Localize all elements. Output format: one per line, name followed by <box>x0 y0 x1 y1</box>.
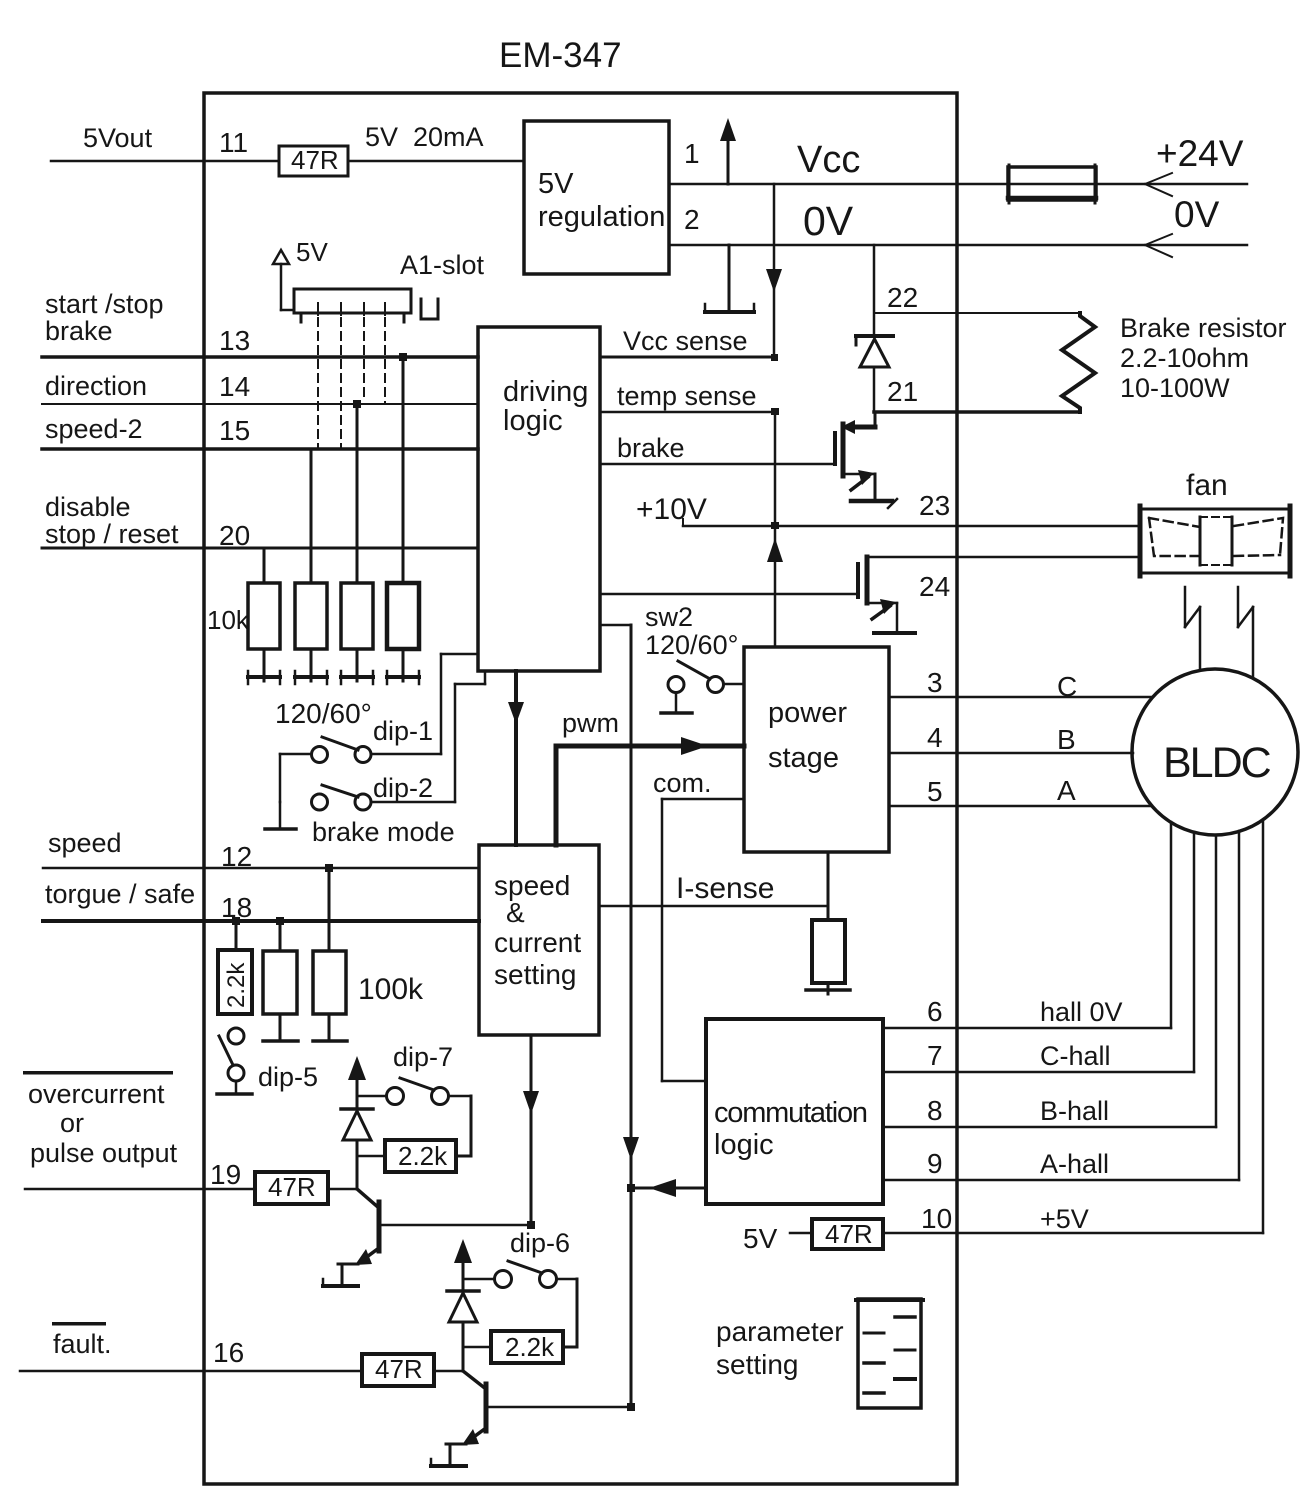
svg-text:8: 8 <box>927 1095 943 1126</box>
svg-text:pwm: pwm <box>562 708 619 738</box>
ground at pin 2 <box>705 245 754 312</box>
wire +10V riser to power stage with up arrow <box>767 412 783 647</box>
wire dip-2 to driving logic <box>371 671 485 802</box>
resistor 100k R5 <box>263 921 297 1014</box>
svg-text:sw2: sw2 <box>645 602 693 632</box>
svg-text:47R: 47R <box>291 145 339 175</box>
slot pin stubs <box>318 303 385 315</box>
svg-text:5V: 5V <box>743 1223 778 1254</box>
ground R6 <box>313 1014 347 1041</box>
fan blade left (dashed) <box>1149 518 1200 556</box>
svg-text:3: 3 <box>927 667 943 698</box>
svg-text:Brake resistor: Brake resistor <box>1120 313 1287 343</box>
connector A1-slot body <box>294 289 438 322</box>
label disable stop/reset <box>45 492 179 549</box>
wire commutation output left arrow <box>631 1179 706 1197</box>
label parameter setting <box>716 1316 844 1380</box>
ground R1 <box>248 649 280 684</box>
svg-text:dip-7: dip-7 <box>393 1042 453 1072</box>
svg-text:5: 5 <box>927 776 943 807</box>
svg-text:2: 2 <box>684 204 700 235</box>
svg-text:4: 4 <box>927 722 943 753</box>
svg-text:speed-2: speed-2 <box>45 414 143 444</box>
svg-text:1: 1 <box>684 138 700 169</box>
svg-text:disable: disable <box>45 492 131 522</box>
wire B-hall (pin 8) <box>883 835 1216 1127</box>
svg-text:14: 14 <box>219 371 250 402</box>
svg-text:A1-slot: A1-slot <box>400 250 485 280</box>
svg-text:dip-6: dip-6 <box>510 1228 570 1258</box>
wire brake (gate of brake MOSFET) <box>600 463 835 466</box>
DIP switch parameter setting <box>856 1299 923 1408</box>
resistor 10k R2 <box>295 449 327 649</box>
svg-text:logic: logic <box>503 405 563 437</box>
power stage block U3 <box>744 647 889 852</box>
diode D2 <box>341 1109 373 1189</box>
wire I-sense <box>599 905 828 908</box>
switch sw2 <box>668 661 724 693</box>
node R3 on line 14 <box>353 400 361 408</box>
transistor Q2 (fault NPN) <box>446 1371 631 1445</box>
svg-text:logic: logic <box>714 1129 774 1161</box>
wire phase A (pin 5) <box>889 805 1152 808</box>
commutation logic block U5 <box>706 1019 883 1204</box>
node R5 on line 18 <box>276 917 284 925</box>
ground dip-5 <box>217 1081 252 1094</box>
svg-text:setting: setting <box>494 959 577 990</box>
svg-text:pulse output: pulse output <box>30 1138 178 1168</box>
label fault. with overline <box>52 1322 112 1359</box>
node R4 on line 13 <box>399 353 407 361</box>
svg-text:overcurrent: overcurrent <box>28 1079 165 1109</box>
resistor 2.2k (dip-6) <box>491 1331 563 1363</box>
wire pin13 <box>42 355 478 359</box>
svg-text:A-hall: A-hall <box>1040 1149 1109 1179</box>
node 2.2k on line 18 <box>232 917 240 925</box>
ground I-sense <box>806 983 850 994</box>
label Brake resistor 2.2-10ohm 10-100W <box>1120 313 1287 403</box>
svg-text:or: or <box>60 1108 84 1138</box>
svg-text:47R: 47R <box>268 1172 316 1202</box>
wire 47R to 5V regulation <box>348 160 524 163</box>
ground R3 <box>341 649 373 684</box>
arrow up above diode D2 <box>348 1056 366 1109</box>
wire driving logic to com node riser <box>600 625 639 1407</box>
wire dip-7 left to diode node <box>357 1095 386 1098</box>
svg-text:2.2-10ohm: 2.2-10ohm <box>1120 343 1249 373</box>
wire com from power stage to commutation logic <box>662 799 744 1081</box>
svg-text:B-hall: B-hall <box>1040 1096 1109 1126</box>
resistor I-sense <box>812 920 845 983</box>
fan wire 1 with break <box>1185 587 1200 670</box>
ground at Q1 emitter <box>323 1264 358 1286</box>
svg-text:6: 6 <box>927 996 943 1027</box>
wire 47R to Q2 base <box>434 1370 463 1373</box>
switch dip-7 <box>387 1078 449 1105</box>
svg-text:regulation: regulation <box>538 201 665 233</box>
transistor Q1 brake MOSFET <box>835 412 875 500</box>
svg-text:20: 20 <box>219 520 250 551</box>
ground at Q2 source <box>874 631 915 635</box>
wire 0V rail <box>669 244 1247 247</box>
wire speed box to Q1 collector (down arrow) <box>523 1035 539 1225</box>
wire driving logic to speed box (thick, down arrow) <box>508 671 524 845</box>
svg-text:B: B <box>1057 724 1076 755</box>
wire pin11 left <box>51 160 279 163</box>
wire diode node to 2.2k <box>357 1155 385 1158</box>
svg-text:dip-1: dip-1 <box>373 716 433 746</box>
label overcurrent or pulse output with overline <box>23 1071 178 1168</box>
svg-text:driving: driving <box>503 376 588 408</box>
wire pin15 <box>42 447 478 451</box>
svg-text:Vcc: Vcc <box>797 139 860 181</box>
wire pin 21 to brake resistor <box>874 410 1080 414</box>
svg-text:10k: 10k <box>207 605 250 635</box>
fuse F1 <box>1008 165 1096 203</box>
wire diode node to 2.2k <box>463 1346 491 1349</box>
svg-text:120/60°: 120/60° <box>275 698 372 729</box>
svg-text:setting: setting <box>716 1349 799 1380</box>
svg-text:stop / reset: stop / reset <box>45 519 179 549</box>
wire pin19 <box>25 1188 255 1191</box>
resistor 47R (hall supply) <box>812 1219 883 1249</box>
wire sw2 to power stage <box>724 683 744 686</box>
resistor 2.2k vertical (pin 18) <box>218 921 252 1014</box>
resistor 47R (pin 19) <box>255 1172 328 1204</box>
wire dip-1 to driving logic <box>371 654 478 754</box>
svg-text:24: 24 <box>919 571 950 602</box>
wire A-hall (pin 9) <box>883 831 1239 1180</box>
dashed slot wire a <box>317 318 319 447</box>
wire pwm thick L with right arrow into power stage <box>556 737 744 845</box>
wire fan MOSFET drain to fan <box>867 556 1139 559</box>
svg-text:stage: stage <box>768 742 839 774</box>
svg-text:10: 10 <box>921 1203 952 1234</box>
wire hall 0V (pin 6) <box>883 822 1171 1028</box>
ground at Q1 source <box>851 499 897 508</box>
wire pin12 <box>43 867 479 870</box>
ground sw2 <box>661 693 692 713</box>
svg-text:current: current <box>494 927 581 958</box>
node Q1 collector to vertical <box>527 1221 535 1229</box>
svg-text:120/60°: 120/60° <box>645 630 738 660</box>
wire dip-7 right to 2.2k <box>449 1096 471 1156</box>
transistor Q2 fan MOSFET <box>858 557 897 632</box>
svg-text:11: 11 <box>219 127 248 158</box>
wire 5V to 47R <box>790 1232 812 1235</box>
5V regulation block U1 <box>524 121 669 274</box>
wire dip-6 right to 2.2k <box>557 1279 577 1347</box>
svg-text:C-hall: C-hall <box>1040 1041 1111 1071</box>
svg-text:+10V: +10V <box>636 493 707 526</box>
arrow up on Vcc rail <box>720 118 736 184</box>
svg-text:A: A <box>1057 775 1076 806</box>
switch dip-6 <box>495 1261 557 1288</box>
wire gate of fan MOSFET from driving logic <box>600 593 858 596</box>
svg-text:13: 13 <box>219 325 250 356</box>
svg-text:start /stop: start /stop <box>45 289 164 319</box>
svg-text:parameter: parameter <box>716 1316 844 1347</box>
node temp sense corner <box>771 408 779 415</box>
ground R5 <box>263 1014 298 1041</box>
wire Vcc rail <box>669 183 1247 186</box>
svg-text:15: 15 <box>219 415 250 446</box>
resistor 47R (pin 11) <box>279 145 348 176</box>
svg-text:EM-347: EM-347 <box>499 36 622 75</box>
dashed slot wire b <box>340 318 342 447</box>
svg-text:dip-5: dip-5 <box>258 1062 318 1092</box>
ground dip common <box>265 802 296 829</box>
node R6 on line 12 <box>325 864 333 872</box>
node Q2 collector to vertical <box>627 1403 635 1411</box>
svg-text:0V: 0V <box>1174 194 1220 235</box>
svg-text:I-sense: I-sense <box>676 872 774 905</box>
svg-text:brake mode: brake mode <box>312 817 455 847</box>
svg-text:+5V: +5V <box>1040 1204 1089 1234</box>
switch dip-5 <box>219 1028 244 1081</box>
arrow up above diode D3 <box>454 1239 472 1291</box>
wire C-hall (pin 7) <box>883 832 1194 1072</box>
wire phase C (pin 3) <box>889 696 1151 699</box>
resistor 2.2k (dip-7) <box>385 1140 456 1172</box>
dashed slot wire c <box>363 318 365 401</box>
wire dip-1 left to common <box>280 754 311 802</box>
wire 0V drop to zener <box>873 245 876 336</box>
wire pin 22 to brake resistor <box>874 312 1080 314</box>
fan box <box>1139 506 1291 576</box>
resistor 47R (pin 16) <box>362 1354 434 1386</box>
svg-text:2.2k: 2.2k <box>398 1141 448 1171</box>
resistor 100k R6 <box>313 868 346 1014</box>
wire dip-6 left to diode node <box>463 1278 494 1281</box>
fan blade right (dashed) <box>1234 518 1283 556</box>
wire pin18 <box>43 919 479 923</box>
svg-text:commutation: commutation <box>714 1097 867 1129</box>
svg-text:5Vout: 5Vout <box>83 123 153 153</box>
svg-text:brake: brake <box>617 433 685 463</box>
svg-text:100k: 100k <box>358 973 424 1006</box>
driving logic block U2 <box>478 327 600 671</box>
brake resistor zigzag <box>1062 313 1095 412</box>
switch dip-1 <box>312 737 372 763</box>
svg-text:0V: 0V <box>803 198 854 244</box>
dashed slot wire d <box>384 318 386 403</box>
svg-text:47R: 47R <box>825 1219 873 1249</box>
wire power stage bottom to I-sense resistor <box>827 852 830 920</box>
fan wire 2 with break <box>1238 587 1253 678</box>
svg-text:5V 20mA: 5V 20mA <box>365 122 484 152</box>
svg-text:+24V: +24V <box>1156 133 1244 174</box>
svg-text:brake: brake <box>45 316 113 346</box>
svg-text:power: power <box>768 697 847 729</box>
node +10V junction <box>771 522 779 529</box>
svg-text:2.2k: 2.2k <box>223 962 250 1008</box>
main enclosure border <box>204 93 957 1484</box>
motor BLDC <box>1132 669 1298 835</box>
ground R4 <box>387 649 419 684</box>
svg-text:dip-2: dip-2 <box>373 773 433 803</box>
svg-text:5V: 5V <box>296 237 328 267</box>
wire +5V (pin 10) <box>883 820 1263 1233</box>
svg-text:speed: speed <box>48 828 122 858</box>
diode D3 <box>447 1291 479 1371</box>
resistor 10k R4 <box>387 357 419 649</box>
speed & current setting block U4 <box>479 845 599 1035</box>
svg-text:direction: direction <box>45 371 147 401</box>
ground at Q2 emitter <box>431 1444 466 1466</box>
svg-text:5V: 5V <box>538 168 574 200</box>
svg-text:torgue / safe: torgue / safe <box>45 879 195 909</box>
wire pin16 <box>20 1370 362 1373</box>
wire Vcc sense <box>600 356 774 359</box>
wire Vcc-sense drop with down arrow <box>766 184 782 357</box>
svg-text:BLDC: BLDC <box>1163 739 1271 787</box>
node commutation arrow junction <box>627 1184 635 1192</box>
transistor Q1 (overcurrent NPN) <box>338 1189 531 1265</box>
label start/stop brake <box>45 289 164 346</box>
svg-text:com.: com. <box>653 768 712 798</box>
wire 47R to Q1 base <box>328 1188 357 1191</box>
svg-text:&: & <box>506 897 525 928</box>
fan hub <box>1200 517 1232 565</box>
wire +10V to fan <box>683 519 1139 526</box>
svg-text:19: 19 <box>210 1159 241 1190</box>
resistor 10k R1 <box>248 548 280 649</box>
svg-text:22: 22 <box>887 282 918 313</box>
svg-text:fault.: fault. <box>53 1329 112 1359</box>
wire pin14 <box>42 403 478 405</box>
wire pin20 <box>42 547 478 550</box>
svg-text:7: 7 <box>927 1040 943 1071</box>
svg-text:10-100W: 10-100W <box>1120 373 1230 403</box>
svg-text:2.2k: 2.2k <box>505 1332 555 1362</box>
5V arrow at A1-slot <box>273 250 294 310</box>
label sw2 120/60 <box>645 602 738 660</box>
wire temp sense <box>600 411 775 414</box>
svg-text:16: 16 <box>213 1337 244 1368</box>
ground R2 <box>295 649 327 684</box>
wire phase B (pin 4) <box>889 752 1133 755</box>
svg-text:9: 9 <box>927 1148 943 1179</box>
svg-text:Vcc sense: Vcc sense <box>623 326 748 356</box>
switch dip-2 <box>312 785 372 810</box>
svg-text:hall 0V: hall 0V <box>1040 997 1123 1027</box>
svg-text:fan: fan <box>1186 469 1228 502</box>
chevron +24V input <box>1145 173 1172 196</box>
resistor 10k R3 <box>341 404 373 649</box>
svg-text:23: 23 <box>919 490 950 521</box>
chevron 0V input <box>1145 234 1172 257</box>
svg-text:47R: 47R <box>375 1354 423 1384</box>
node Vcc sense corner <box>771 354 778 361</box>
svg-text:21: 21 <box>887 376 918 407</box>
svg-text:temp sense: temp sense <box>617 381 757 411</box>
zener diode D1 <box>856 336 893 412</box>
